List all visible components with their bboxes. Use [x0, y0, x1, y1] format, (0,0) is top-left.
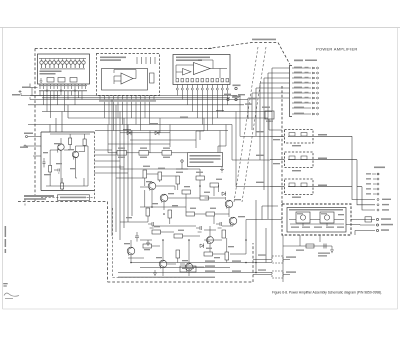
relay coil small boxes	[47, 78, 54, 83]
small mark left	[24, 200, 26, 206]
label AMPLIFIER ASSY below box	[24, 195, 54, 200]
wire output main	[246, 219, 375, 221]
input stage box	[41, 132, 95, 191]
resistor R33	[152, 230, 161, 234]
capacitor C11	[148, 222, 154, 228]
labels below output	[296, 250, 330, 257]
resistor R25	[210, 183, 219, 187]
output terminal labels	[381, 218, 393, 231]
resistor R21	[143, 170, 147, 178]
page left edge	[2, 28, 4, 310]
module labels	[292, 134, 327, 198]
ground symbol near note	[220, 167, 224, 173]
label A4 SWITCH ASSEMBLY	[40, 71, 62, 75]
resistor R3	[61, 183, 64, 189]
relay K1 contact circles	[40, 61, 85, 64]
contact digit row	[40, 68, 85, 69]
resistor R2	[49, 166, 52, 173]
J1 pin wire labels	[294, 67, 309, 115]
resistor R35	[143, 244, 152, 248]
svg-text:POWER AMPLIFIER: POWER AMPLIFIER	[316, 47, 358, 52]
input box wiring	[46, 134, 90, 191]
resistor R31	[206, 212, 215, 216]
wire mesh lower cluster verticals	[120, 165, 229, 263]
transistor Q4	[160, 194, 168, 202]
assembly dashed boundary top-right diagonal to mother board	[208, 43, 290, 65]
assembly dashed boundary bottom-left	[18, 201, 107, 203]
bottom right small dashed box 1	[272, 256, 283, 263]
page bottom edge	[3, 308, 398, 310]
wire resistor row	[108, 152, 187, 154]
wire through module 1	[270, 135, 352, 137]
test point TP3	[227, 98, 229, 100]
driver module dashed rect 1	[285, 130, 314, 144]
ground symbol under Q10	[153, 270, 157, 276]
capacitor C12	[196, 226, 202, 232]
capacitor C14	[135, 232, 139, 242]
cable dashed diagonal 1	[242, 47, 266, 202]
wire mesh lower cluster horizontals	[116, 169, 246, 276]
wire L-drop to P2 row1	[352, 136, 375, 199]
assembly dashed boundary bottom-right vertical	[252, 243, 254, 282]
A1 pin stubs with circles	[176, 85, 228, 91]
op-amp U2 triangle	[121, 73, 133, 84]
wire speaker out	[355, 231, 375, 236]
connector P2 short rows	[372, 173, 380, 211]
ground symbol under cluster	[146, 240, 150, 246]
wire K2	[269, 119, 282, 130]
assembly dashed boundary left	[34, 49, 36, 202]
A4 pin circles	[46, 90, 76, 92]
resistor R4	[83, 139, 86, 146]
label TO MOTHER BOARD	[252, 39, 276, 41]
wire below output block	[283, 235, 332, 282]
note text lines	[190, 155, 221, 163]
op-amp U1 triangle	[194, 63, 211, 75]
wire mid rows	[108, 140, 196, 148]
resistor R29	[168, 210, 172, 218]
resistor R40	[306, 244, 314, 248]
test point TP4	[181, 160, 183, 162]
A2 pin label row	[99, 100, 156, 101]
wire contact header line	[39, 58, 86, 60]
label A1 assembly	[176, 57, 210, 62]
resistor R27	[200, 196, 209, 200]
switch assembly A4 box	[38, 54, 90, 84]
connector P2 label	[374, 167, 385, 169]
wire vertical drops from J1	[248, 68, 272, 258]
transistor Q11	[185, 263, 193, 271]
labels in input box	[43, 143, 76, 175]
A1 pin squares row	[176, 79, 229, 82]
resistor R37	[204, 252, 213, 256]
transistor Q3	[148, 182, 156, 190]
inner assembly dashed vertical	[113, 208, 181, 278]
wire diode row	[120, 133, 170, 147]
A2 inner box	[102, 69, 148, 91]
resistor R22	[158, 172, 162, 180]
output terminal circles	[376, 218, 378, 220]
cable dashed diagonal 2	[234, 47, 258, 202]
output block outer dashed	[282, 204, 351, 235]
module internal comps	[289, 133, 307, 187]
J1 pin rows	[292, 68, 311, 114]
wire J1 feeds	[248, 68, 290, 258]
junction dots bottom	[245, 262, 257, 274]
page top edge	[0, 27, 400, 29]
resistor R34	[174, 234, 183, 238]
wire L-drop to P2 row2	[357, 160, 375, 205]
ground below C15	[330, 246, 334, 253]
assembly dashed boundary bottom	[108, 281, 254, 283]
fuse F1 box	[365, 217, 372, 222]
output block labels	[291, 213, 344, 228]
resistor R5	[150, 73, 155, 83]
capacitor assembly A2 dashed box	[97, 54, 160, 96]
transistor Q5	[225, 200, 233, 208]
transistor Q7	[300, 215, 305, 220]
page right edge	[397, 28, 399, 310]
transistor Q10	[159, 260, 167, 268]
bus wires horizontal	[28, 96, 272, 131]
pencil mark bottom left	[4, 293, 19, 298]
label TP3	[224, 94, 231, 95]
A2 feedback wire	[114, 70, 136, 85]
connector P2 row labels	[366, 173, 391, 210]
resistor R11	[117, 151, 127, 156]
diode CR3	[200, 243, 204, 248]
input connector stub	[26, 137, 41, 157]
transistor Q1	[58, 144, 64, 150]
capacitor C15	[324, 244, 326, 249]
op-amp U1a small triangle	[183, 69, 192, 76]
output transistor Q7 box	[296, 212, 310, 223]
wire L-drop to P2 row3	[357, 187, 375, 210]
dashed spine right	[281, 86, 283, 204]
wire nested drops center-left	[94, 100, 132, 241]
svg-text:Figure 6-8. Power Amplifier A: Figure 6-8. Power Amplifier Assembly Sch…	[272, 290, 382, 294]
transistor Q8	[324, 215, 329, 220]
resistor R12	[139, 151, 149, 156]
capacitor C1	[43, 158, 60, 173]
wire drops from A2 pins	[105, 102, 150, 131]
wire bottom rows	[118, 200, 278, 273]
labels near small boxes	[258, 254, 296, 272]
wire to small boxes	[253, 260, 290, 275]
note box	[188, 153, 223, 167]
label C26	[182, 268, 194, 269]
wire A4 left drop	[30, 88, 56, 100]
contact ticks above	[42, 59, 84, 61]
test point TP1 label	[233, 85, 241, 98]
wire drops from A4 pins	[44, 91, 83, 118]
label K2	[262, 107, 273, 122]
resistor R26	[182, 190, 191, 194]
resistor R13	[162, 151, 172, 156]
A4 pin labels row	[39, 85, 87, 91]
diode CR1	[127, 130, 131, 135]
label A2 CAPACITOR ASSEMBLY	[100, 57, 126, 61]
wire drops from A1 pins	[177, 90, 227, 131]
label P1/J1	[294, 60, 317, 62]
transistor Q9	[127, 247, 135, 255]
resistor R1	[69, 138, 72, 145]
wire through module 3	[270, 186, 352, 188]
wire through module 2	[270, 159, 357, 161]
resistor R24	[196, 176, 205, 180]
transistor Q12	[207, 237, 214, 244]
assembly dashed boundary top	[35, 48, 212, 50]
capacitor C13	[216, 222, 222, 228]
connector P1/J1 bracket	[290, 66, 293, 117]
driver module dashed rect 2	[285, 152, 314, 168]
wire extra bus stubs	[108, 96, 270, 187]
resistor R28	[146, 208, 150, 216]
transistor Q6	[229, 217, 237, 225]
output block header text	[289, 209, 343, 211]
U1 wiring	[176, 60, 227, 78]
output block inner box	[287, 208, 346, 233]
bottom wire labels	[118, 260, 241, 278]
bus end labels	[123, 94, 256, 130]
driver module dashed rect 3	[285, 179, 314, 195]
cluster labels	[124, 166, 245, 262]
A2 top pin ticks	[137, 57, 155, 64]
label left edge	[12, 87, 30, 96]
wire mid right labels	[256, 131, 280, 183]
resistor R38	[225, 252, 229, 260]
J1 pin terminal circles	[313, 67, 319, 115]
capacitor C26 box	[180, 266, 196, 272]
resistor R36	[176, 250, 180, 258]
input terminal circle	[26, 136, 28, 138]
A2 pin stubs below	[100, 96, 154, 100]
wire output return	[346, 224, 375, 227]
connector E1 left	[19, 90, 22, 93]
resistor R32	[222, 230, 226, 238]
ground mark in A4	[40, 78, 43, 82]
left margin vertical part number	[3, 226, 8, 287]
resistor R30	[186, 212, 195, 216]
label input	[20, 133, 33, 148]
output transistor Q8 box	[320, 212, 334, 223]
transistor Q2	[72, 151, 78, 157]
resistor R23	[176, 176, 180, 184]
diode CR2	[155, 130, 159, 135]
diode CR4	[222, 191, 226, 196]
relay K2 box near connector	[265, 111, 274, 119]
A4 pin stubs below box	[40, 84, 86, 89]
labels resistor row	[118, 148, 170, 158]
relay contact pin ticks	[42, 65, 84, 69]
junction dots	[130, 185, 247, 263]
pre-amp assembly A1 box	[173, 55, 230, 85]
assembly dashed boundary mid vertical	[107, 202, 109, 283]
output block internal wires	[289, 220, 344, 227]
TP1 circles	[235, 87, 237, 89]
bottom right small dashed box 2	[272, 271, 283, 278]
wire left edge feeds	[21, 84, 68, 133]
